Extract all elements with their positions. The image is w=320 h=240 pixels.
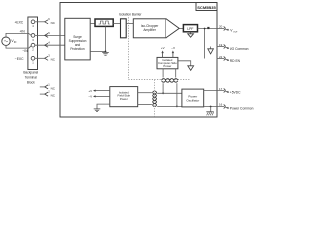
pin 17 +5VDC — [204, 90, 224, 92]
label box SCM5B35 — [196, 3, 217, 11]
up arrow 1 (+V) — [162, 52, 164, 57]
wire -IN terminal to surge box — [35, 44, 65, 46]
field power ground — [97, 104, 110, 109]
up arrow 2 (-V) — [172, 52, 174, 57]
pin 4 connector — [45, 43, 48, 47]
stubs box to transformer — [162, 69, 164, 78]
svg-text:SCM5B35: SCM5B35 — [197, 5, 216, 10]
svg-text:IN: IN — [14, 42, 17, 44]
amplifier triangle — [166, 19, 179, 38]
svg-text:17: 17 — [219, 87, 223, 91]
pin 20 Vout — [217, 28, 225, 30]
isolated computer-side power box — [157, 57, 178, 68]
svg-text:Backpanel: Backpanel — [23, 71, 38, 75]
pin 19 I/O Common — [217, 46, 225, 48]
wire -EXC terminal to pin — [35, 57, 45, 59]
RD EN control wire — [204, 29, 206, 59]
svg-text:LPF: LPF — [187, 27, 193, 31]
svg-text:Protection: Protection — [70, 47, 85, 51]
power transformer windings — [153, 91, 155, 107]
junction on power common — [210, 106, 212, 108]
svg-text:+IN: +IN — [19, 29, 25, 33]
terminal 4 (+EXC) — [31, 20, 35, 24]
NC stub pin 1 — [40, 86, 45, 88]
svg-text:19: 19 — [219, 43, 223, 47]
io common arrow — [210, 47, 212, 49]
stub transformer to bottom power wire — [176, 83, 178, 106]
svg-text:Power: Power — [120, 97, 128, 101]
svg-text:Isolation Barrier: Isolation Barrier — [119, 13, 142, 17]
svg-text:−V: −V — [171, 46, 175, 50]
svg-text:+V: +V — [161, 46, 165, 50]
isolation barrier vertical dashed (top) — [127, 17, 129, 79]
terminal 3 (+IN) — [31, 34, 35, 38]
pin 5 connector — [45, 33, 48, 37]
-V arrow — [95, 95, 110, 97]
computer-side common arrow — [178, 61, 191, 66]
pin 6 connector — [45, 20, 48, 24]
svg-text:Power Common: Power Common — [230, 107, 254, 111]
ground (field) — [102, 52, 109, 55]
power transformer wires left — [138, 92, 152, 94]
terminal 2 (-IN) — [31, 43, 35, 47]
+V arrow — [95, 90, 110, 92]
module outer border — [60, 3, 217, 118]
svg-text:Oscillator: Oscillator — [186, 99, 199, 103]
wire LPF to Vout pin with switch — [198, 28, 217, 30]
computer-side power transformer — [162, 79, 178, 81]
pin 16 Power Common — [204, 106, 224, 108]
iso-chopper amplifier box — [133, 19, 166, 38]
power oscillator box — [182, 89, 204, 107]
chopper box — [95, 19, 113, 26]
svg-text:−V: −V — [88, 95, 92, 99]
signal transformer winding left — [121, 19, 127, 38]
common arrow below LPF — [190, 32, 192, 34]
isolated field-side power box — [110, 87, 138, 107]
wire chopper to transformer — [113, 22, 120, 24]
surge suppression box — [65, 18, 90, 60]
wire surge to chopper — [90, 22, 95, 24]
wire VIN bottom to -IN terminal — [6, 45, 31, 48]
svg-text:I/O Common: I/O Common — [230, 47, 249, 51]
stub transformer to top power wire — [162, 83, 164, 93]
wire VIN top to +IN terminal — [6, 33, 31, 37]
read switch — [207, 27, 209, 29]
svg-text:+V: +V — [88, 89, 92, 93]
wire +EXC terminal to pin — [35, 21, 45, 23]
svg-text:−IN: −IN — [22, 49, 28, 53]
svg-text:20: 20 — [219, 25, 223, 29]
svg-text:16: 16 — [219, 103, 223, 107]
svg-text:Power: Power — [163, 64, 171, 68]
svg-text:22: 22 — [219, 55, 223, 59]
svg-text:−EXC: −EXC — [15, 57, 24, 61]
wire amp to LPF — [179, 28, 183, 30]
pin 22 RD EN — [217, 58, 225, 60]
LPF box — [183, 25, 197, 32]
node junction — [105, 51, 107, 53]
isolation barrier horizontal dashed — [128, 79, 190, 81]
source VIN — [2, 37, 10, 45]
svg-text:RD EN: RD EN — [230, 59, 241, 63]
NC stub pin 2 — [40, 93, 45, 95]
pin 3 connector — [45, 56, 48, 60]
svg-text:Block: Block — [27, 80, 35, 84]
wire transformer to iso-chopper — [126, 22, 133, 24]
power transformer wires right — [157, 92, 182, 94]
svg-text:+EXC: +EXC — [14, 20, 23, 24]
isolation barrier vertical dashed (bottom) — [154, 80, 156, 118]
svg-text:OUT: OUT — [233, 32, 238, 34]
svg-text:Terminal: Terminal — [25, 76, 37, 80]
svg-text:+5VDC: +5VDC — [230, 91, 241, 95]
terminal 1 (-EXC) — [31, 56, 35, 60]
chassis ground — [210, 107, 212, 112]
wire surge lower to ground node — [90, 50, 105, 52]
backpanel terminal block — [28, 17, 38, 70]
wire +IN terminal to surge box — [35, 34, 65, 36]
svg-text:Amplifier: Amplifier — [143, 28, 156, 32]
wire chopper bottom to ground node — [105, 26, 107, 51]
